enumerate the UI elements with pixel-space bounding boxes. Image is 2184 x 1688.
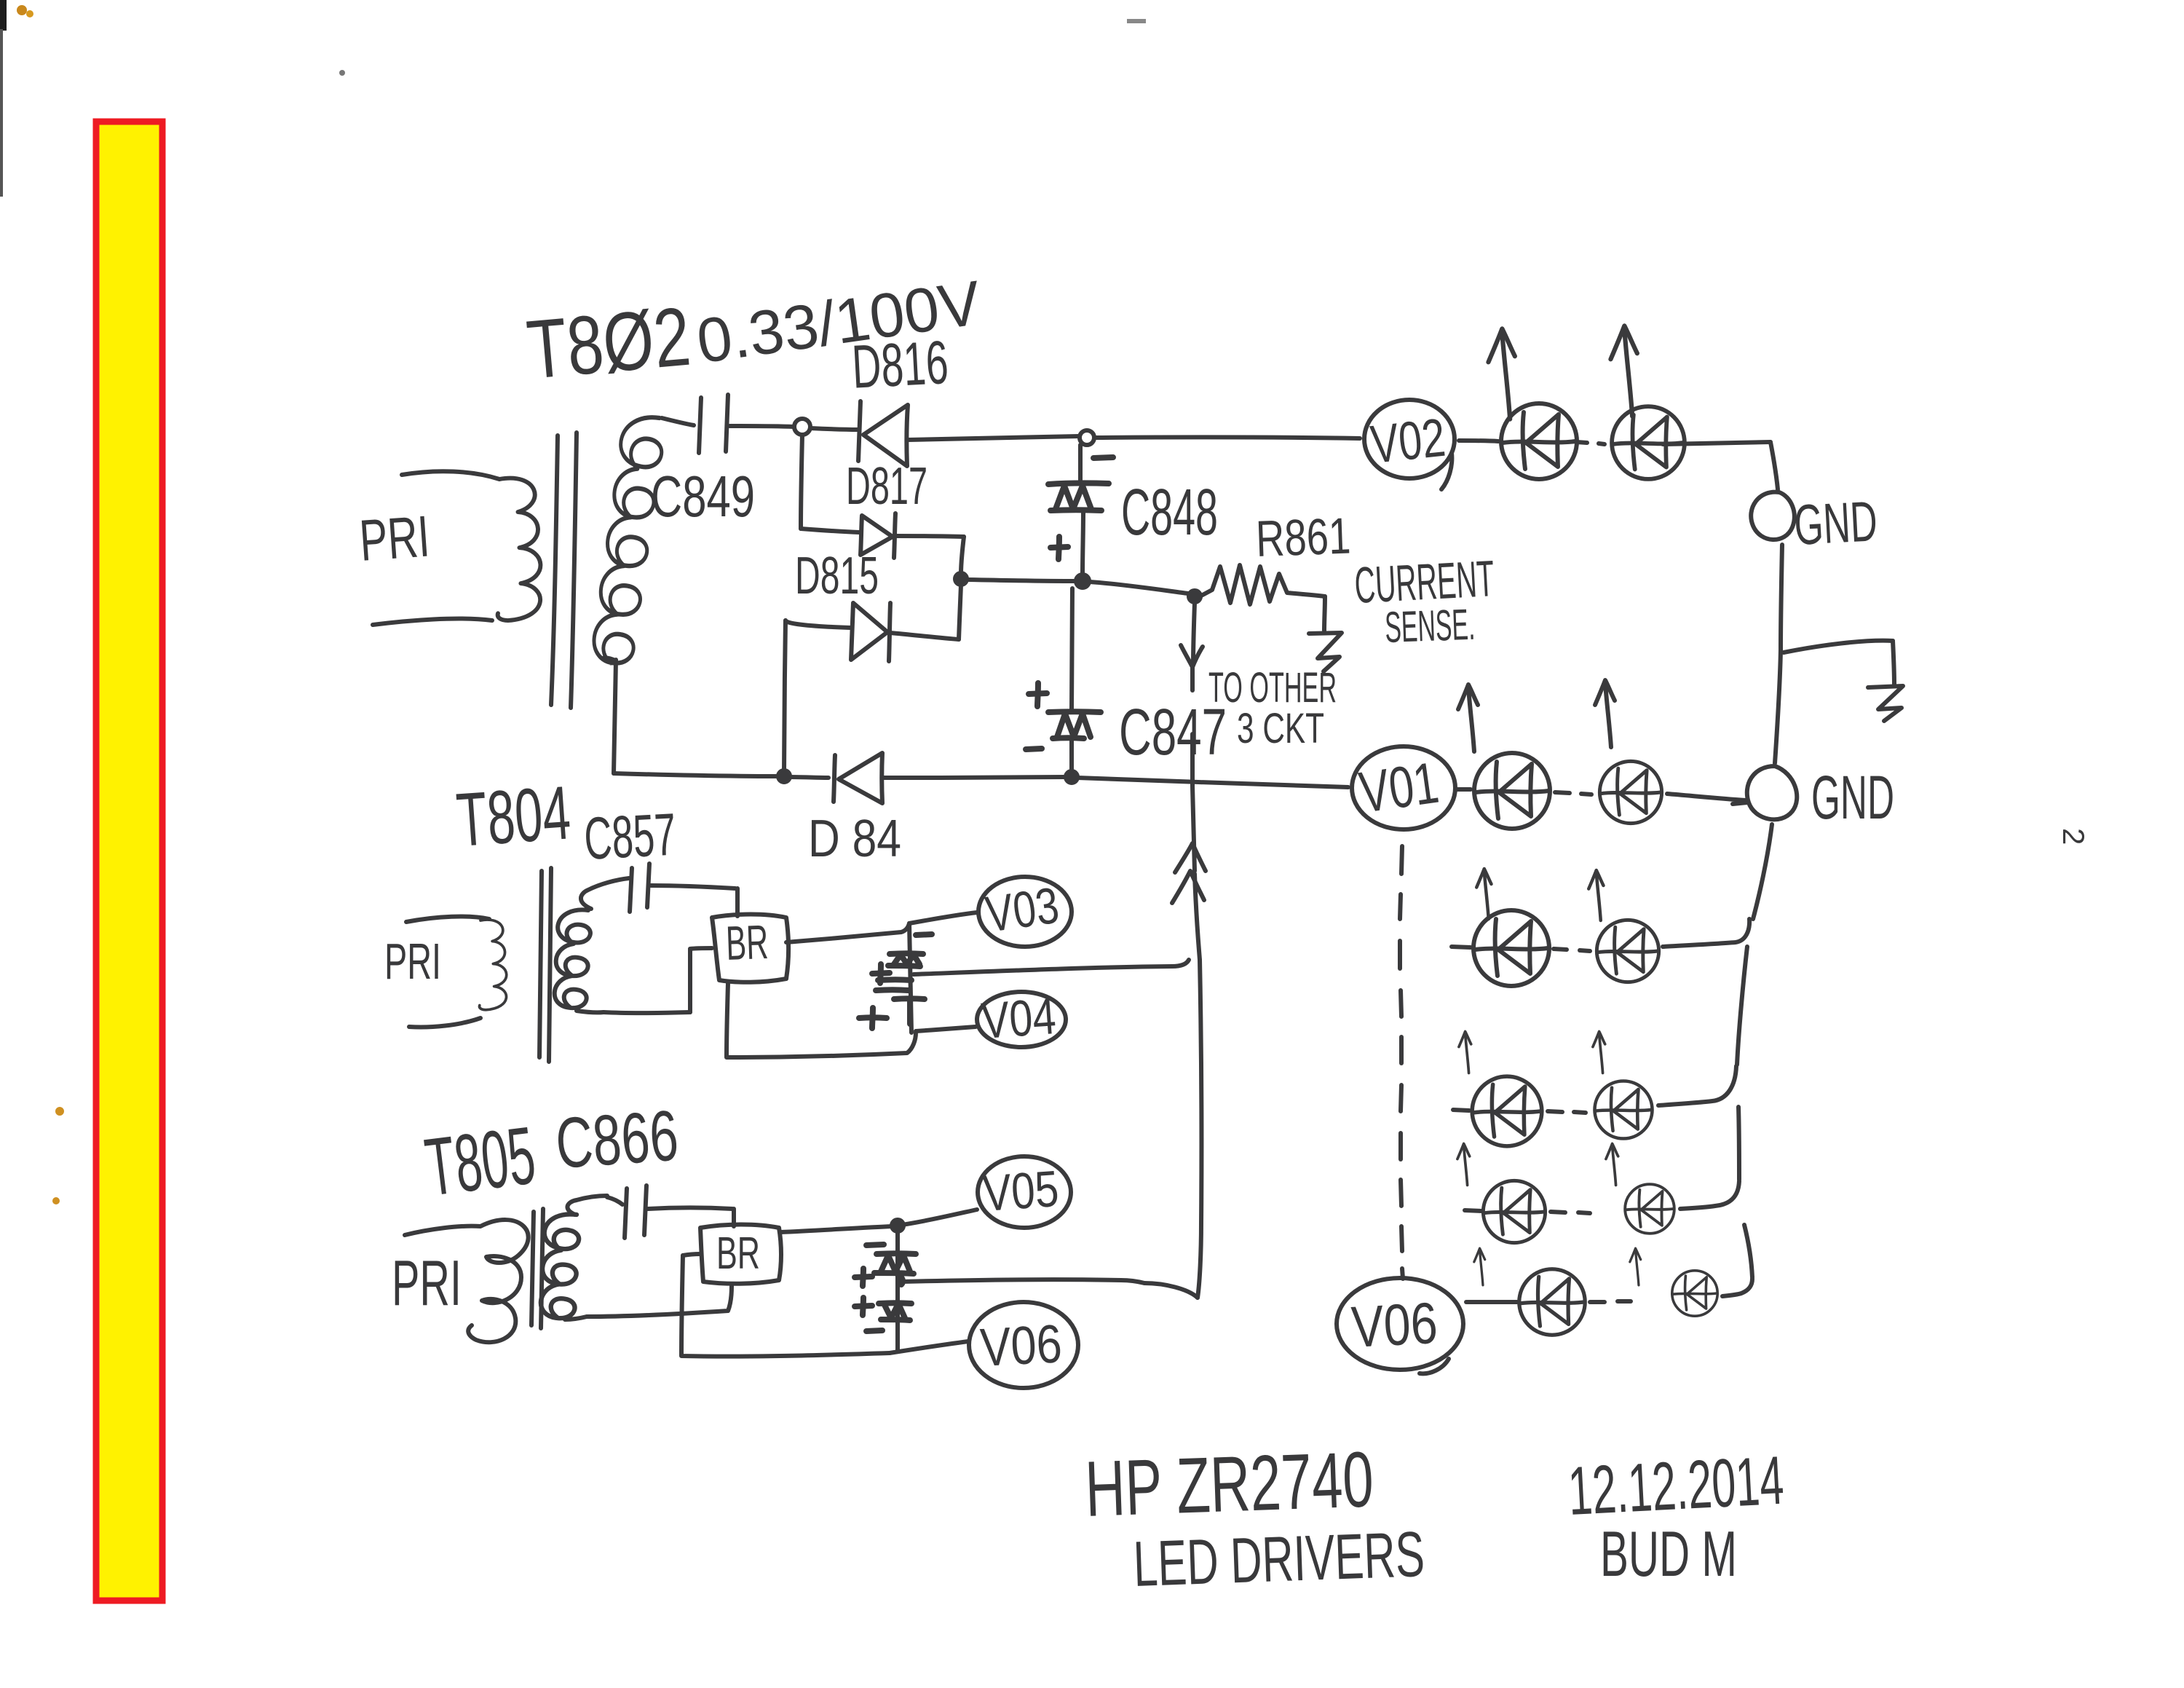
svg-text:C849: C849 [651, 464, 755, 529]
svg-text:D816: D816 [850, 328, 950, 401]
svg-text:GND: GND [1811, 763, 1894, 832]
svg-text:C847: C847 [1119, 696, 1227, 769]
svg-text:V02: V02 [1368, 407, 1448, 475]
svg-text:PRI: PRI [392, 1247, 462, 1319]
svg-text:2: 2 [2057, 828, 2091, 845]
svg-text:R861: R861 [1255, 508, 1352, 567]
svg-text:D817: D817 [846, 457, 927, 516]
svg-text:LED DRIVERS: LED DRIVERS [1132, 1518, 1425, 1600]
svg-text:PRI: PRI [357, 503, 432, 572]
svg-text:BR: BR [725, 915, 769, 970]
svg-text:T8Ø2: T8Ø2 [523, 291, 694, 397]
svg-text:V06: V06 [1350, 1290, 1439, 1360]
svg-text:GND: GND [1792, 489, 1878, 557]
svg-text:D815: D815 [795, 547, 879, 605]
svg-text:HP ZR2740: HP ZR2740 [1084, 1435, 1375, 1533]
svg-text:C848: C848 [1121, 476, 1218, 549]
svg-text:12.12.2014: 12.12.2014 [1567, 1442, 1786, 1529]
svg-text:PRI: PRI [384, 933, 441, 990]
svg-text:V03: V03 [982, 877, 1062, 943]
svg-text:D 84: D 84 [808, 810, 901, 868]
svg-text:BUD M: BUD M [1600, 1518, 1737, 1590]
svg-text:V05: V05 [981, 1160, 1061, 1222]
svg-text:T804: T804 [454, 770, 574, 863]
svg-text:3 CKT: 3 CKT [1237, 705, 1324, 752]
svg-text:BR: BR [716, 1228, 760, 1279]
svg-text:C857: C857 [582, 802, 678, 872]
svg-text:T805: T805 [421, 1109, 540, 1212]
svg-text:V01: V01 [1356, 750, 1442, 825]
svg-text:V04: V04 [980, 987, 1058, 1049]
svg-text:V06: V06 [978, 1313, 1063, 1378]
svg-text:SENSE.: SENSE. [1384, 600, 1476, 652]
svg-text:C866: C866 [553, 1095, 681, 1183]
